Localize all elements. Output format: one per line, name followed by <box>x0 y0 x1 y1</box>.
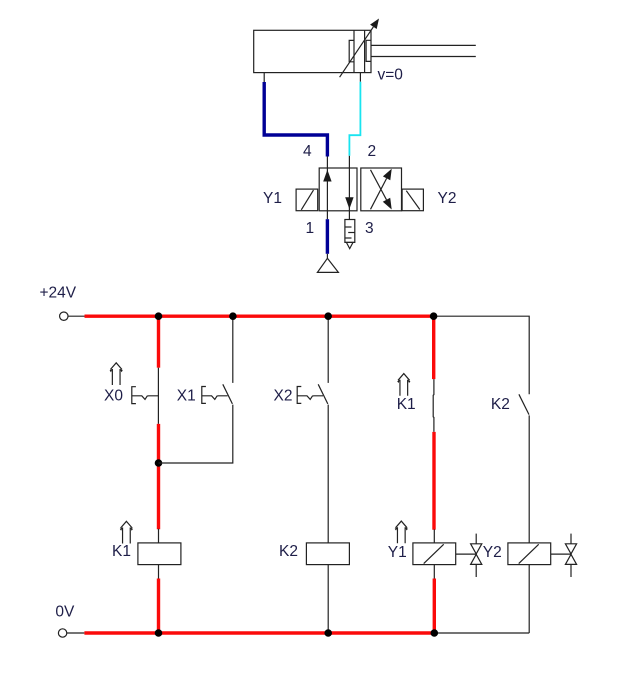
label v=0 <box>378 67 404 84</box>
cushioning boss <box>349 40 354 61</box>
terminal +24V <box>60 312 68 320</box>
wire K2 coil to 0V <box>327 565 329 633</box>
wire K1 contact rung top (red) <box>432 315 435 380</box>
valve V1 right position box <box>361 168 402 211</box>
relay coil K1 <box>138 543 181 565</box>
label X2 <box>274 387 293 404</box>
node bus bottom K2 coil <box>324 629 332 637</box>
solenoid pilot Y2 (valve right) <box>402 189 423 211</box>
node bus bottom K1 coil <box>155 629 163 637</box>
label K1 contact <box>397 396 416 413</box>
solenoid pilot Y1 (valve left) <box>296 189 318 211</box>
label K2 coil <box>279 543 298 560</box>
pressure pipe (navy) cylinder to valve port 4 <box>264 82 327 168</box>
wire stub from +24V terminal <box>68 315 85 317</box>
label Y2 coil <box>483 544 502 561</box>
cylinder body A1 <box>254 30 371 72</box>
port 1 pipe with pressure line <box>326 211 328 258</box>
label X1 <box>177 387 196 404</box>
port 3 stub <box>348 211 350 220</box>
label Y1 coil <box>388 544 407 561</box>
port label 2 <box>368 143 377 160</box>
compressed air source triangle <box>317 258 338 272</box>
wire X2 to K2 coil <box>327 405 329 543</box>
wire X0 to node (red) <box>157 424 160 529</box>
valve right box crossed arrow down-right <box>371 170 392 210</box>
switch X0 (closed make contact) <box>132 368 159 424</box>
label 0V <box>55 604 75 621</box>
label Y2 (valve) <box>438 190 457 207</box>
svg-text:v=0: v=0 <box>378 67 404 84</box>
node junction X1 join <box>155 459 163 467</box>
node bus top K1 <box>430 312 438 320</box>
svg-text:1: 1 <box>306 220 315 237</box>
port label 1 <box>306 220 315 237</box>
svg-text:X1: X1 <box>177 387 196 404</box>
node bus top X2 <box>324 312 332 320</box>
valve left box flow arrow up (1 to 4) <box>323 168 331 211</box>
wire X2 rung top (black) <box>327 316 329 383</box>
svg-text:K2: K2 <box>491 396 510 413</box>
node bus bottom Y1 coil <box>431 629 439 637</box>
svg-text:Y1: Y1 <box>388 544 407 561</box>
wire K2 contact to Y2 coil <box>528 415 530 543</box>
label X0 <box>104 387 123 404</box>
valve link symbol of Y2 <box>551 534 577 577</box>
valve V1 left position box <box>319 168 357 211</box>
svg-text:0V: 0V <box>55 604 75 621</box>
actuation arrow above X0 <box>110 363 123 385</box>
port label 3 <box>365 220 374 237</box>
terminal 0V <box>58 629 66 637</box>
label +24V <box>40 285 77 302</box>
relay contact K2 (open) <box>519 394 529 414</box>
bus 0V black continuation to Y2 <box>435 632 529 634</box>
silencer on port 3 <box>345 220 355 249</box>
wire X1 bottom to node <box>159 405 233 463</box>
actuation arrow above Y1 coil <box>395 521 408 543</box>
svg-text:2: 2 <box>368 143 377 160</box>
wire K1 coil to 0V (red) <box>157 579 160 635</box>
bus +24V red (energized) <box>85 315 434 318</box>
wire X1 rung top (black) <box>232 316 234 383</box>
solenoid coil Y1 <box>413 543 456 565</box>
cylinder piston <box>354 30 365 72</box>
cylinder port stub right <box>359 73 361 82</box>
valve link symbol of Y1 <box>456 534 482 577</box>
wire K1 contact to Y1 coil (red) <box>432 432 435 530</box>
label K1 coil <box>112 543 131 560</box>
piston rod <box>366 40 476 61</box>
bus 0V red (energized) <box>84 631 435 634</box>
solenoid coil Y1 pins <box>433 529 435 579</box>
svg-text:X2: X2 <box>274 387 293 404</box>
svg-text:K2: K2 <box>279 543 298 560</box>
wire stub from 0V terminal <box>66 632 84 634</box>
node bus top X0 <box>155 312 163 320</box>
cushioning adjust arrow <box>340 19 379 78</box>
valve left box flow arrow down (2 to 3) <box>345 168 353 211</box>
label K2 contact <box>491 396 510 413</box>
label Y1 (valve) <box>263 190 282 207</box>
wire Y2 coil to 0V <box>528 565 530 633</box>
svg-text:K1: K1 <box>112 543 131 560</box>
port label 4 <box>303 143 312 160</box>
svg-text:4: 4 <box>303 143 312 160</box>
valve right box crossed arrow up-right <box>371 169 392 210</box>
switch X2 (open make contact) <box>297 384 328 404</box>
relay coil K2 <box>306 543 349 565</box>
wire Y1 coil to 0V (red) <box>433 579 436 635</box>
svg-text:X0: X0 <box>104 387 123 404</box>
svg-text:Y1: Y1 <box>263 190 282 207</box>
solenoid coil Y2 <box>508 543 551 565</box>
svg-text:+24V: +24V <box>40 285 77 302</box>
exhaust pipe (cyan) cylinder to valve port 2 <box>349 82 360 169</box>
wire X0 rung top (red) <box>157 315 160 368</box>
cylinder port stub left <box>263 73 265 83</box>
relay coil K1 pins <box>158 529 160 579</box>
actuation arrow above K1 contact <box>397 374 410 396</box>
node bus top X1 <box>229 312 237 320</box>
actuation arrow above K1 coil <box>120 521 133 543</box>
svg-text:Y2: Y2 <box>483 544 502 561</box>
bus +24V black continuation to K2 branch <box>434 316 530 394</box>
svg-text:3: 3 <box>365 220 374 237</box>
svg-text:Y2: Y2 <box>438 190 457 207</box>
switch X1 (open make contact) <box>202 384 233 404</box>
relay contact K1 (closed) <box>432 379 435 432</box>
svg-text:K1: K1 <box>397 396 416 413</box>
